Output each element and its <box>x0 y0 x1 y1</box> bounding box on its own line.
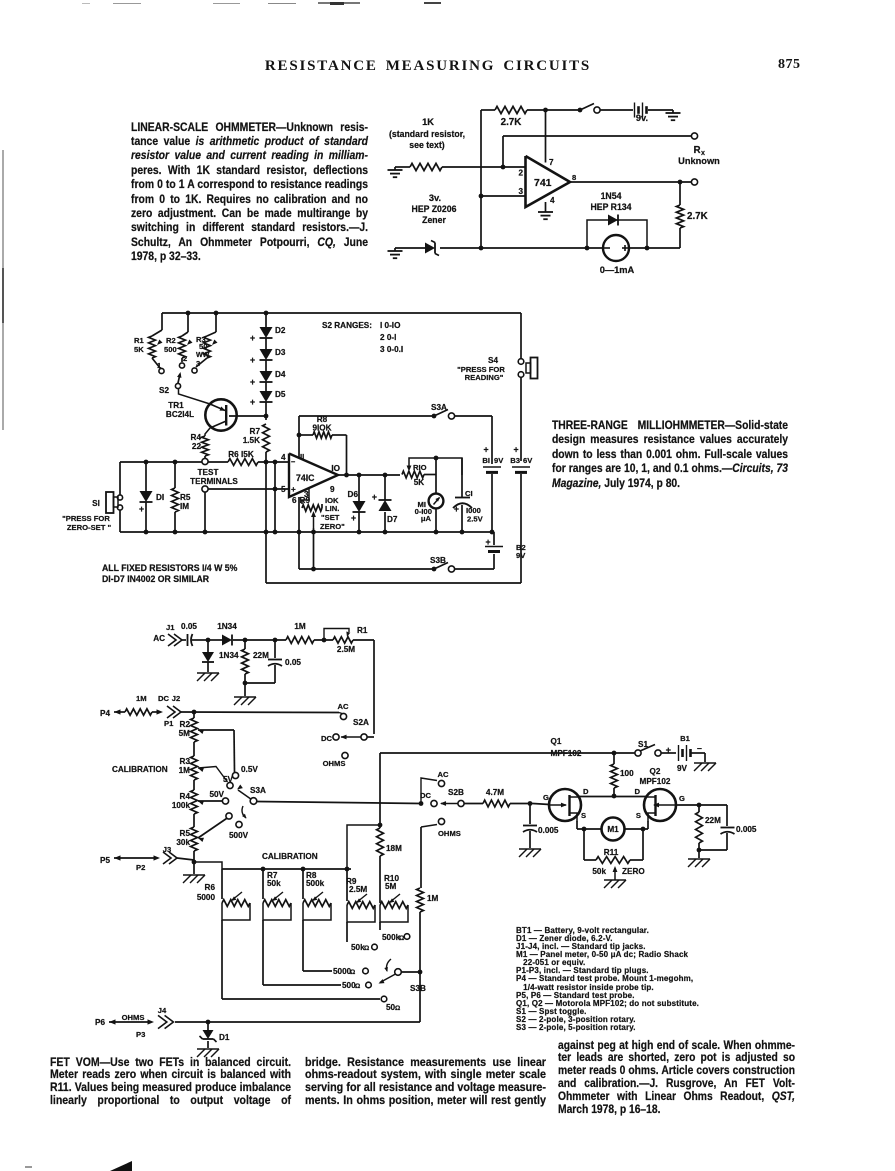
svg-text:"SET: "SET <box>321 513 340 522</box>
svg-text:S2: S2 <box>159 386 169 395</box>
svg-text:Ω: Ω <box>395 1005 400 1012</box>
svg-text:AC: AC <box>337 702 349 711</box>
svg-text:BC2I4L: BC2I4L <box>166 410 194 419</box>
svg-text:IM: IM <box>180 502 189 511</box>
svg-text:J3: J3 <box>163 845 171 854</box>
svg-text:9V: 9V <box>494 456 504 465</box>
svg-text:500k: 500k <box>382 933 401 942</box>
svg-text:+: + <box>250 333 255 343</box>
svg-text:5M: 5M <box>385 882 397 891</box>
svg-text:OHMS: OHMS <box>323 759 346 768</box>
svg-text:50: 50 <box>199 342 207 351</box>
svg-text:II: II <box>300 452 304 461</box>
svg-text:+: + <box>666 745 672 755</box>
svg-text:R9: R9 <box>300 496 311 505</box>
svg-text:500: 500 <box>342 981 356 990</box>
svg-text:S3B: S3B <box>410 984 426 993</box>
svg-text:2: 2 <box>183 354 187 363</box>
svg-text:2.5M: 2.5M <box>349 885 367 894</box>
svg-text:50k: 50k <box>267 879 281 888</box>
svg-text:1M: 1M <box>179 766 191 775</box>
svg-text:4.7M: 4.7M <box>486 788 504 797</box>
svg-text:D2: D2 <box>275 326 286 335</box>
svg-text:AC: AC <box>437 770 449 779</box>
svg-text:0—1mA: 0—1mA <box>600 265 635 275</box>
svg-text:CALIBRATION: CALIBRATION <box>262 852 318 861</box>
svg-text:Ω: Ω <box>364 945 369 952</box>
svg-text:M1: M1 <box>607 825 619 834</box>
svg-text:2 0-I: 2 0-I <box>380 333 396 342</box>
svg-text:8: 8 <box>572 173 576 182</box>
svg-text:S4: S4 <box>488 356 498 365</box>
svg-text:2.7K: 2.7K <box>687 211 708 222</box>
svg-text:9V: 9V <box>516 551 526 560</box>
svg-text:2.5V: 2.5V <box>467 515 484 524</box>
svg-text:ZERO": ZERO" <box>320 522 345 531</box>
svg-text:Unknown: Unknown <box>678 156 720 166</box>
svg-text:100: 100 <box>620 769 634 778</box>
svg-text:J4: J4 <box>158 1006 167 1015</box>
svg-text:R: R <box>693 145 700 156</box>
svg-text:G: G <box>679 794 685 803</box>
svg-text:TR1: TR1 <box>168 401 184 410</box>
svg-text:+: + <box>250 355 255 365</box>
svg-text:D6: D6 <box>348 490 359 499</box>
svg-text:1N34: 1N34 <box>217 622 237 631</box>
svg-text:see text): see text) <box>409 140 444 150</box>
svg-text:DI: DI <box>156 493 164 502</box>
svg-text:J2: J2 <box>172 694 180 703</box>
svg-text:1N34: 1N34 <box>219 651 239 660</box>
svg-text:MPF102: MPF102 <box>640 777 671 786</box>
svg-text:+: + <box>291 485 296 494</box>
svg-text:D4: D4 <box>275 370 286 379</box>
svg-text:DC: DC <box>158 694 170 703</box>
svg-text:50k: 50k <box>351 943 365 952</box>
svg-text:R1: R1 <box>134 336 145 345</box>
svg-text:18M: 18M <box>386 844 402 853</box>
svg-text:500V: 500V <box>229 831 249 840</box>
svg-text:R1: R1 <box>357 626 368 635</box>
svg-text:R4: R4 <box>180 792 191 801</box>
svg-text:D7: D7 <box>387 515 398 524</box>
svg-text:1.5K: 1.5K <box>243 436 260 445</box>
svg-text:DC: DC <box>321 734 333 743</box>
svg-text:4: 4 <box>281 453 286 462</box>
svg-text:R6: R6 <box>205 883 216 892</box>
svg-text:+: + <box>250 377 255 387</box>
svg-text:B1: B1 <box>680 734 691 743</box>
svg-text:ZERO: ZERO <box>622 867 645 876</box>
svg-text:22: 22 <box>192 442 202 451</box>
svg-text:P3: P3 <box>136 1030 145 1039</box>
svg-text:6: 6 <box>292 496 297 505</box>
svg-text:22M: 22M <box>705 816 721 825</box>
svg-text:1M: 1M <box>427 894 439 903</box>
svg-text:DI-D7 IN4002 OR SIMILAR: DI-D7 IN4002 OR SIMILAR <box>102 574 210 584</box>
svg-text:741: 741 <box>534 178 552 189</box>
svg-text:9: 9 <box>330 485 335 494</box>
svg-text:9IOK: 9IOK <box>312 424 331 433</box>
svg-text:+: + <box>513 445 518 455</box>
svg-text:5000: 5000 <box>197 893 216 902</box>
svg-text:5K: 5K <box>134 345 144 354</box>
svg-text:S1: S1 <box>638 740 648 749</box>
svg-text:3v.: 3v. <box>429 193 441 203</box>
svg-text:WW: WW <box>196 351 210 359</box>
svg-text:TEST: TEST <box>198 468 219 477</box>
svg-text:1N54: 1N54 <box>601 191 622 201</box>
svg-text:0.005: 0.005 <box>538 826 559 835</box>
svg-text:+: + <box>351 513 356 523</box>
svg-text:CALIBRATION: CALIBRATION <box>112 765 168 774</box>
svg-text:3: 3 <box>518 187 523 196</box>
svg-text:R2: R2 <box>166 336 176 345</box>
svg-text:S2A: S2A <box>353 718 369 727</box>
svg-text:S2B: S2B <box>448 788 464 797</box>
svg-text:R6 I5K: R6 I5K <box>228 450 254 459</box>
svg-text:100k: 100k <box>172 801 191 810</box>
svg-text:ALL FIXED RESISTORS I/4 W 5: ALL FIXED RESISTORS I/4 W 5% <box>102 563 238 573</box>
svg-text:5K: 5K <box>414 478 425 487</box>
svg-text:R5: R5 <box>180 829 191 838</box>
svg-text:R11: R11 <box>604 848 619 857</box>
svg-text:P1: P1 <box>164 719 174 728</box>
svg-text:P6: P6 <box>95 1018 105 1027</box>
svg-text:OHMS: OHMS <box>438 829 461 838</box>
svg-text:4: 4 <box>550 196 555 205</box>
svg-text:2: 2 <box>518 169 523 178</box>
svg-text:+: + <box>485 537 490 547</box>
svg-text:1M: 1M <box>136 694 147 703</box>
svg-text:HEP Z0206: HEP Z0206 <box>412 204 457 214</box>
svg-text:D3: D3 <box>275 348 286 357</box>
svg-text:+: + <box>454 504 459 514</box>
svg-text:+: + <box>139 504 144 514</box>
svg-text:S3A: S3A <box>250 786 266 795</box>
svg-text:–: – <box>697 743 702 753</box>
svg-text:I 0-IO: I 0-IO <box>380 321 401 330</box>
svg-text:"PRESS FOR: "PRESS FOR <box>62 514 110 523</box>
svg-text:30k: 30k <box>176 838 190 847</box>
svg-text:Ω: Ω <box>355 983 360 990</box>
svg-text:P2: P2 <box>136 863 145 872</box>
svg-text:0.05: 0.05 <box>181 622 197 631</box>
svg-text:5V: 5V <box>223 775 234 784</box>
svg-text:R2: R2 <box>180 720 191 729</box>
svg-text:5000: 5000 <box>333 967 352 976</box>
svg-text:500: 500 <box>164 345 177 354</box>
svg-text:S2 RANGES:: S2 RANGES: <box>322 321 372 330</box>
svg-text:R5: R5 <box>180 493 191 502</box>
svg-text:S3A: S3A <box>431 403 447 412</box>
svg-text:P4: P4 <box>100 709 110 718</box>
svg-text:50k: 50k <box>592 867 606 876</box>
svg-text:D: D <box>583 787 589 796</box>
svg-text:SI: SI <box>92 499 100 508</box>
svg-text:(standard resistor,: (standard resistor, <box>389 129 465 139</box>
svg-text:Q1: Q1 <box>551 737 562 746</box>
svg-text:CI: CI <box>465 489 473 498</box>
svg-text:–: – <box>291 457 295 466</box>
svg-text:LIN.: LIN. <box>325 504 339 513</box>
svg-text:74IC: 74IC <box>296 473 315 483</box>
svg-text:RIO: RIO <box>413 463 427 472</box>
svg-text:2.5M: 2.5M <box>337 645 355 654</box>
svg-text:+: + <box>250 397 255 407</box>
svg-text:500k: 500k <box>306 879 325 888</box>
svg-text:3: 3 <box>196 359 200 368</box>
svg-text:S: S <box>581 811 586 820</box>
svg-text:R7: R7 <box>250 427 261 436</box>
svg-text:2.7K: 2.7K <box>501 117 522 128</box>
svg-text:DC: DC <box>420 791 432 800</box>
svg-text:1K: 1K <box>422 117 434 127</box>
svg-text:R4: R4 <box>191 433 202 442</box>
svg-text:Ω: Ω <box>350 969 355 976</box>
svg-text:22M: 22M <box>253 651 269 660</box>
svg-text:ZERO-SET ": ZERO-SET " <box>67 523 112 532</box>
svg-text:Zener: Zener <box>422 215 446 225</box>
svg-text:5: 5 <box>281 485 286 494</box>
svg-text:READING": READING" <box>465 373 504 382</box>
svg-text:1M: 1M <box>294 622 306 631</box>
svg-text:IO: IO <box>331 464 340 473</box>
svg-text:D5: D5 <box>275 390 286 399</box>
svg-text:0.5V: 0.5V <box>241 765 258 774</box>
svg-text:7: 7 <box>549 158 554 167</box>
svg-text:R3: R3 <box>180 757 191 766</box>
svg-text:50V: 50V <box>209 790 224 799</box>
svg-text:TERMINALS: TERMINALS <box>190 477 238 486</box>
svg-text:9V: 9V <box>677 764 688 773</box>
svg-text:0.05: 0.05 <box>285 658 301 667</box>
svg-text:+: + <box>483 445 488 455</box>
svg-text:0.005: 0.005 <box>736 825 757 834</box>
svg-text:6V: 6V <box>523 456 533 465</box>
svg-text:B3: B3 <box>510 456 520 465</box>
svg-text:P5: P5 <box>100 856 110 865</box>
svg-text:9v.: 9v. <box>636 113 648 123</box>
svg-text:μA: μA <box>421 514 432 523</box>
svg-text:D: D <box>634 787 640 796</box>
svg-text:5M: 5M <box>179 729 191 738</box>
svg-text:S: S <box>636 811 641 820</box>
svg-text:3 0-0.I: 3 0-0.I <box>380 345 403 354</box>
svg-text:D1: D1 <box>219 1033 230 1042</box>
svg-text:Q2: Q2 <box>650 767 661 776</box>
svg-text:S3B: S3B <box>430 556 446 565</box>
svg-text:HEP R134: HEP R134 <box>590 202 631 212</box>
svg-text:AC: AC <box>153 634 165 643</box>
svg-text:G: G <box>543 793 549 802</box>
svg-text:+: + <box>372 492 377 502</box>
svg-text:MPF102: MPF102 <box>551 749 582 758</box>
svg-text:OHMS: OHMS <box>122 1013 145 1022</box>
svg-text:J1: J1 <box>166 623 175 632</box>
svg-text:BI: BI <box>482 456 490 465</box>
